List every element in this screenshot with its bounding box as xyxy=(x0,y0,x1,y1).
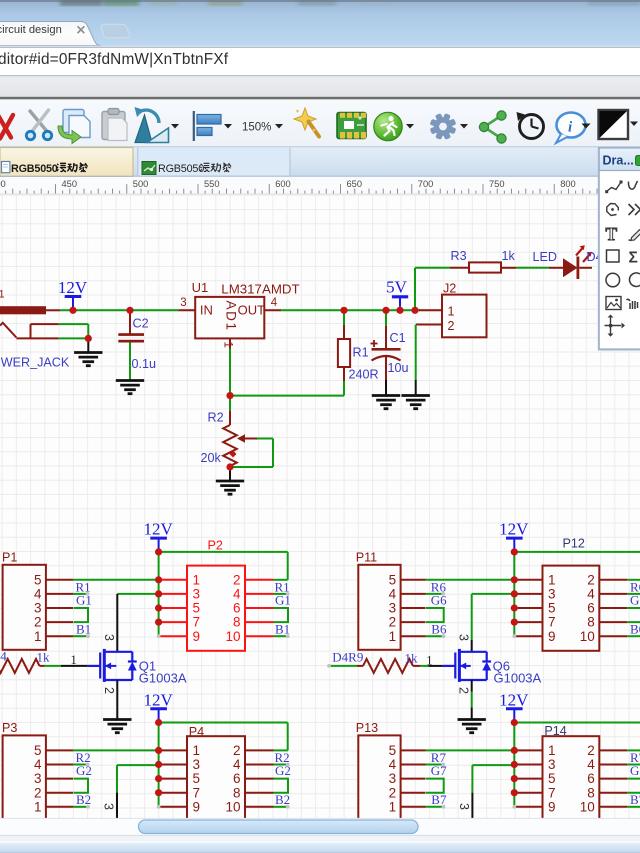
svg-text:4: 4 xyxy=(587,757,595,772)
svg-text:450: 450 xyxy=(62,179,78,189)
svg-text:9: 9 xyxy=(193,629,201,644)
svg-text:3: 3 xyxy=(548,757,556,772)
svg-text:550: 550 xyxy=(204,179,220,189)
svg-text:2: 2 xyxy=(389,785,397,800)
svg-text:12V: 12V xyxy=(58,278,88,297)
svg-text:D4R9: D4R9 xyxy=(332,650,363,665)
svg-text:4: 4 xyxy=(34,757,42,772)
svg-text:1: 1 xyxy=(193,743,201,758)
svg-text:400: 400 xyxy=(0,179,6,189)
svg-text:8: 8 xyxy=(233,615,241,630)
svg-text:R1: R1 xyxy=(353,346,369,360)
svg-text:5: 5 xyxy=(34,743,42,758)
svg-text:6: 6 xyxy=(233,601,241,616)
svg-text:C2: C2 xyxy=(133,317,149,331)
svg-text:3: 3 xyxy=(193,757,201,772)
svg-text:7: 7 xyxy=(548,785,556,800)
svg-text:3: 3 xyxy=(456,634,470,641)
svg-text:3: 3 xyxy=(34,601,42,616)
svg-text:G1003A: G1003A xyxy=(494,671,542,686)
svg-text:150%: 150% xyxy=(242,122,271,134)
svg-text:1: 1 xyxy=(34,799,42,814)
svg-text:10: 10 xyxy=(580,629,595,644)
svg-text:0.1u: 0.1u xyxy=(132,357,157,371)
svg-text:B6: B6 xyxy=(630,622,640,637)
svg-text:U1: U1 xyxy=(192,280,209,295)
svg-text:4: 4 xyxy=(233,757,241,772)
svg-text:1: 1 xyxy=(548,743,556,758)
svg-text:B2: B2 xyxy=(275,792,290,807)
svg-text:1k: 1k xyxy=(502,249,516,263)
svg-text:R2: R2 xyxy=(208,411,224,425)
svg-text:IN: IN xyxy=(200,303,213,318)
svg-text:2: 2 xyxy=(389,615,397,630)
svg-text:9: 9 xyxy=(193,799,201,814)
svg-text:6: 6 xyxy=(587,771,595,786)
svg-text:12V: 12V xyxy=(499,520,529,539)
svg-text:AD1: AD1 xyxy=(224,301,239,332)
svg-text:P2: P2 xyxy=(208,539,223,553)
svg-text:OUT: OUT xyxy=(238,303,266,318)
svg-text:4: 4 xyxy=(34,587,42,602)
svg-text:1: 1 xyxy=(193,572,201,587)
svg-text:1: 1 xyxy=(34,629,42,644)
svg-text:G2: G2 xyxy=(76,763,92,778)
svg-text:5V: 5V xyxy=(386,278,408,297)
svg-text:2: 2 xyxy=(34,615,42,630)
svg-text:3: 3 xyxy=(180,297,186,309)
svg-text:P11: P11 xyxy=(356,551,377,565)
svg-text:5: 5 xyxy=(193,601,201,616)
svg-text:1: 1 xyxy=(548,572,556,587)
svg-text:2: 2 xyxy=(233,572,241,587)
svg-text:ditor#id=0FR3fdNmW|XnTbtnFXf: ditor#id=0FR3fdNmW|XnTbtnFXf xyxy=(0,51,229,68)
svg-text:Dra...: Dra... xyxy=(603,154,634,168)
svg-text:240R: 240R xyxy=(349,368,379,382)
svg-text:1k: 1k xyxy=(405,651,419,666)
svg-text:3: 3 xyxy=(457,803,471,810)
svg-text:8: 8 xyxy=(587,785,595,800)
svg-text:4: 4 xyxy=(587,587,595,602)
svg-text:R3: R3 xyxy=(451,249,467,263)
svg-text:RGB5050: RGB5050 xyxy=(11,163,58,175)
svg-text:G7: G7 xyxy=(630,763,640,778)
svg-text:G6: G6 xyxy=(630,593,640,608)
svg-text:C1: C1 xyxy=(390,331,406,345)
svg-text:P1: P1 xyxy=(2,551,17,565)
svg-text:6: 6 xyxy=(233,771,241,786)
svg-text:P4: P4 xyxy=(189,725,204,739)
svg-text:12V: 12V xyxy=(143,690,173,709)
svg-text:9: 9 xyxy=(548,629,556,644)
svg-text:4: 4 xyxy=(0,649,7,664)
svg-text:LM317AMDT: LM317AMDT xyxy=(221,281,299,296)
svg-text:1: 1 xyxy=(222,342,234,348)
svg-text:P14: P14 xyxy=(544,724,566,738)
svg-text:2: 2 xyxy=(102,687,116,694)
svg-text:T: T xyxy=(606,224,618,244)
svg-text:B7: B7 xyxy=(431,792,447,807)
svg-text:10: 10 xyxy=(225,629,240,644)
svg-text:2: 2 xyxy=(587,572,595,587)
svg-text:7: 7 xyxy=(548,615,556,630)
svg-text:RGB5050: RGB5050 xyxy=(158,163,204,175)
svg-text:10: 10 xyxy=(225,799,240,814)
svg-text:4: 4 xyxy=(233,587,241,602)
svg-text:Σ: Σ xyxy=(629,250,638,267)
svg-text:6: 6 xyxy=(587,601,595,616)
svg-text:1: 1 xyxy=(389,629,397,644)
svg-text:J2: J2 xyxy=(443,282,456,296)
svg-text:5: 5 xyxy=(548,601,556,616)
svg-text:2: 2 xyxy=(456,687,470,694)
svg-text:3: 3 xyxy=(193,587,201,602)
svg-text:650: 650 xyxy=(347,179,363,189)
svg-text:5: 5 xyxy=(193,771,201,786)
svg-text:7: 7 xyxy=(193,615,201,630)
svg-text:1: 1 xyxy=(426,654,432,668)
svg-text:G1: G1 xyxy=(76,593,92,608)
svg-text:3: 3 xyxy=(102,634,116,641)
svg-text:20k: 20k xyxy=(201,451,222,465)
svg-text:4: 4 xyxy=(389,757,397,772)
svg-text:5: 5 xyxy=(34,572,42,587)
svg-text:800: 800 xyxy=(560,179,576,189)
svg-text:1k: 1k xyxy=(37,650,51,665)
svg-text:3: 3 xyxy=(548,587,556,602)
svg-text:1: 1 xyxy=(448,305,455,319)
svg-text:B2: B2 xyxy=(76,792,91,807)
svg-text:LED: LED xyxy=(533,250,558,264)
svg-text:1: 1 xyxy=(71,653,77,667)
svg-text:700: 700 xyxy=(418,179,434,189)
svg-text:B6: B6 xyxy=(431,622,447,637)
svg-text:2: 2 xyxy=(448,319,455,333)
svg-text:B1: B1 xyxy=(275,622,290,637)
svg-text:POWER_JACK: POWER_JACK xyxy=(0,356,70,370)
svg-text:750: 750 xyxy=(489,179,505,189)
svg-text:10: 10 xyxy=(580,799,595,814)
svg-text:5: 5 xyxy=(389,572,397,587)
svg-text:P12: P12 xyxy=(563,537,585,551)
svg-text:B1: B1 xyxy=(76,622,91,637)
svg-text:1: 1 xyxy=(0,289,5,301)
svg-text:8: 8 xyxy=(233,785,241,800)
svg-text:4: 4 xyxy=(389,587,397,602)
svg-text:circuit design: circuit design xyxy=(0,24,62,36)
svg-text:P13: P13 xyxy=(356,721,378,735)
svg-text:3: 3 xyxy=(389,771,397,786)
svg-text:600: 600 xyxy=(275,179,291,189)
svg-text:5: 5 xyxy=(389,743,397,758)
svg-text:2: 2 xyxy=(233,743,241,758)
svg-text:2: 2 xyxy=(34,785,42,800)
svg-text:3: 3 xyxy=(389,601,397,616)
svg-text:3: 3 xyxy=(101,803,115,810)
svg-text:2: 2 xyxy=(587,743,595,758)
svg-text:10u: 10u xyxy=(388,361,409,375)
svg-text:3: 3 xyxy=(34,771,42,786)
svg-text:9: 9 xyxy=(548,799,556,814)
svg-text:8: 8 xyxy=(587,615,595,630)
svg-text:12V: 12V xyxy=(499,690,529,709)
svg-text:500: 500 xyxy=(133,179,149,189)
svg-text:7: 7 xyxy=(193,785,201,800)
svg-text:5: 5 xyxy=(548,771,556,786)
svg-text:1: 1 xyxy=(389,799,397,814)
svg-text:B7: B7 xyxy=(630,792,640,807)
svg-text:P3: P3 xyxy=(2,721,17,735)
svg-text:4: 4 xyxy=(271,297,278,309)
svg-text:12V: 12V xyxy=(143,520,173,539)
svg-text:G1003A: G1003A xyxy=(139,671,187,686)
